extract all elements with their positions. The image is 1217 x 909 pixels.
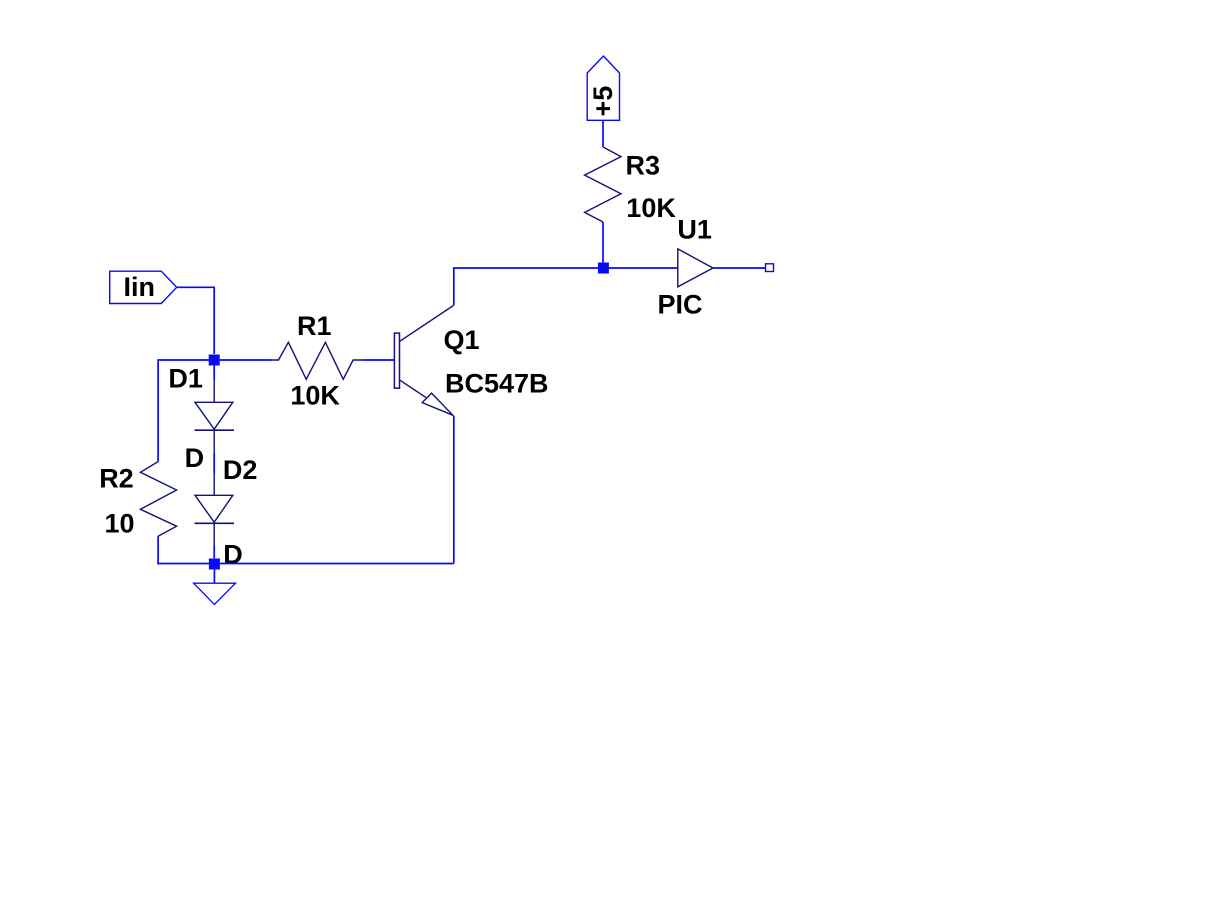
wire R2 bottom branch (157, 536, 159, 564)
wire top net (454, 268, 678, 306)
ground (194, 570, 236, 605)
svg-text:D: D (223, 540, 243, 570)
wire R2 top branch (157, 359, 159, 461)
svg-text:Q1: Q1 (444, 325, 480, 355)
wire node1 to D1 (213, 366, 215, 381)
transistor Q1 collector lead (400, 306, 454, 342)
svg-text:U1: U1 (677, 215, 712, 245)
wire node1 horizontal (158, 359, 271, 361)
wire U1 output (713, 267, 766, 269)
transistor Q1 base bar (394, 333, 399, 388)
svg-text:R2: R2 (99, 464, 134, 494)
svg-text:10K: 10K (290, 380, 340, 410)
transistor Q1 emitter lead (400, 380, 454, 416)
transistor Q1 emitter arrow (422, 393, 453, 415)
diode D2 (195, 473, 235, 546)
node junction (Iin/R1/R2/D1) (209, 355, 220, 366)
resistor R1 (270, 342, 362, 379)
terminal square (U1 output pin) (766, 264, 774, 272)
resistor R2 (140, 462, 176, 537)
op-amp buffer U1 (678, 249, 713, 287)
wire emitter to bottom net (453, 416, 455, 564)
svg-text:PIC: PIC (658, 290, 703, 320)
node junction (R3/collector/U1) (598, 263, 609, 274)
svg-text:D2: D2 (223, 455, 258, 485)
svg-text:R1: R1 (297, 311, 332, 341)
svg-text:+5: +5 (588, 86, 618, 117)
svg-text:BC547B: BC547B (445, 368, 549, 398)
node junction (R2/D2/ground/emitter) (209, 559, 220, 570)
diode D1 (195, 380, 235, 453)
svg-text:D: D (185, 443, 205, 473)
power flag +5 (587, 56, 619, 120)
wire bottom net (157, 563, 454, 565)
input flag Iin (110, 271, 177, 303)
svg-text:10K: 10K (626, 193, 676, 223)
svg-text:R3: R3 (626, 150, 661, 180)
wire D2 to node2 (213, 546, 215, 558)
wire Iin to node (177, 287, 215, 354)
wire R3 to node (602, 222, 604, 268)
wire R1 to Q1 base (362, 359, 395, 361)
svg-text:D1: D1 (168, 364, 203, 394)
wire D1 to D2 (213, 453, 215, 473)
svg-text:Iin: Iin (124, 272, 156, 302)
svg-text:10: 10 (105, 508, 135, 538)
resistor R3 (585, 147, 621, 222)
wire +5 to R3 (602, 120, 604, 147)
